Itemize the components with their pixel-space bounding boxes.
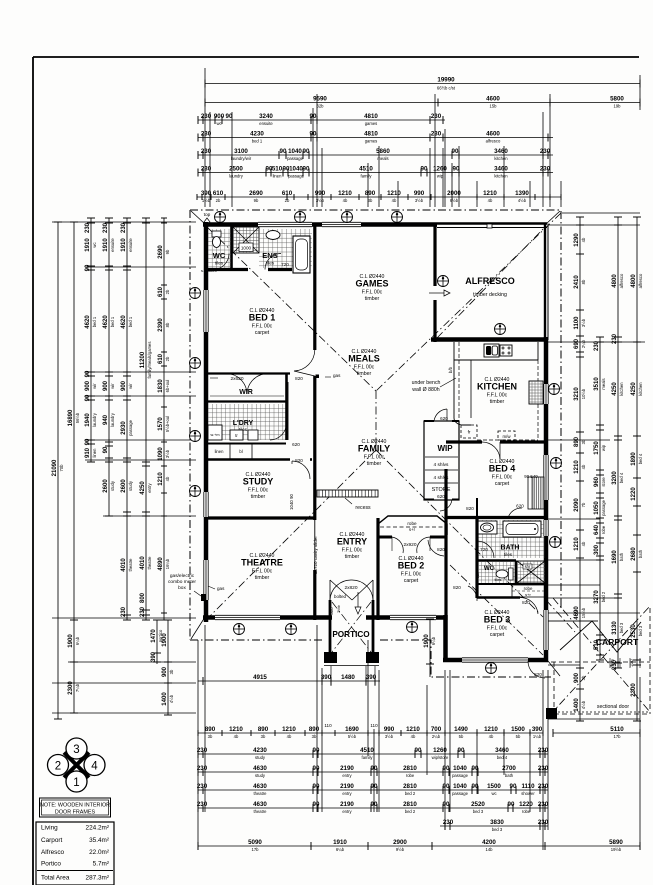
svg-text:910: 910 [85,447,91,458]
svg-text:820: 820 [295,458,303,463]
svg-text:1220: 1220 [631,487,637,501]
svg-text:21090: 21090 [52,459,58,476]
svg-text:90 540: 90 540 [524,474,538,479]
svg-text:510: 510 [272,166,283,173]
svg-text:2x620: 2x620 [230,376,243,382]
svg-text:1210: 1210 [483,190,497,197]
alfresco door arrow [429,292,444,294]
interior wall bed1/games spine x=315 [313,224,316,350]
passage wall next to laundry [287,382,289,440]
svg-text:BATH: BATH [501,545,520,552]
svg-text:kitchen: kitchen [619,382,624,396]
svg-text:NOTE: WOODEN INTERIOR: NOTE: WOODEN INTERIOR [40,803,110,809]
svg-text:4250: 4250 [612,382,618,396]
svg-text:32b: 32b [317,104,325,109]
svg-text:90: 90 [313,747,320,754]
ens shower box [233,227,259,253]
svg-text:WC: WC [484,565,495,572]
svg-text:110: 110 [370,723,378,728]
svg-text:2600: 2600 [121,479,127,493]
svg-text:230: 230 [197,783,208,790]
svg-text:4½b: 4½b [169,694,174,703]
svg-text:robe: robe [524,586,533,591]
svg-text:2190: 2190 [340,765,354,772]
svg-text:4250: 4250 [631,382,637,396]
svg-text:3b: 3b [581,439,586,444]
svg-text:10½b: 10½b [581,388,586,399]
bottom chain bed3 3830 [440,825,548,827]
wall games/alfresco x=435 [433,224,436,286]
svg-text:wc: wc [491,791,496,796]
eave gutter dash-dot outline [190,210,561,677]
svg-text:study: study [128,480,133,491]
svg-text:4630: 4630 [253,801,267,808]
svg-text:4800: 4800 [612,274,618,288]
svg-text:robe: robe [407,521,417,526]
svg-text:1090: 1090 [158,447,164,461]
svg-text:1910: 1910 [333,839,347,846]
kitchen bench top [454,359,538,361]
svg-text:1210: 1210 [406,726,420,733]
svg-text:games: games [365,121,378,126]
svg-text:study: study [255,755,266,760]
dimension chain laundry/passage/meals/kitchen row [198,154,553,156]
svg-text:combo meter: combo meter [168,579,196,585]
right outer wall with windows [544,337,549,384]
svg-text:2: 2 [55,760,61,772]
svg-text:meals: meals [601,378,606,389]
portico columns [324,652,337,663]
svg-text:under bench: under bench [412,380,441,386]
svg-text:9590: 9590 [313,96,327,103]
svg-text:gas: gas [333,373,341,378]
svg-text:90: 90 [371,801,378,808]
svg-text:study: study [255,773,266,778]
svg-text:4b: 4b [488,198,493,203]
svg-text:3b: 3b [581,675,586,680]
svg-text:family: family [362,755,374,760]
svg-text:F.F.L 00c: F.F.L 00c [487,626,508,632]
svg-text:carpet: carpet [495,481,510,487]
svg-text:timber: timber [345,554,360,560]
study door 820 from passage [292,461,310,479]
svg-text:DOOR FRAMES: DOOR FRAMES [55,810,96,816]
wc door arc [213,254,229,270]
dimension chain wc/ensuite/games row [198,119,445,121]
svg-text:study: study [110,480,115,491]
svg-text:110: 110 [324,723,332,728]
svg-text:bed 3: bed 3 [619,622,624,633]
svg-text:17b: 17b [252,847,260,852]
svg-text:1490: 1490 [454,726,468,733]
bed2 top wall [378,536,392,539]
svg-text:ENS: ENS [262,251,277,260]
svg-text:1940: 1940 [85,413,91,427]
svg-text:4b: 4b [165,476,170,481]
svg-text:390: 390 [532,726,543,733]
svg-text:4010: 4010 [140,556,146,570]
svg-text:1¼b: 1¼b [533,734,542,739]
top wall window games [322,221,361,223]
svg-text:5b: 5b [516,734,521,739]
vertical dim 1900 below bed2 [429,619,431,677]
svg-text:wc: wc [216,121,221,126]
svg-text:w.+m: w.+m [211,433,220,437]
svg-text:230: 230 [85,222,91,233]
svg-text:Total Area: Total Area [41,875,70,882]
svg-text:4890: 4890 [158,557,164,571]
svg-text:230: 230 [197,765,208,772]
svg-text:tiles: tiles [504,552,513,557]
svg-text:5800: 5800 [610,96,624,103]
top dimension block extension lines [204,68,206,207]
svg-text:19½b: 19½b [611,847,622,852]
svg-text:90: 90 [226,113,233,120]
svg-text:bed 4: bed 4 [619,472,624,483]
bed4 top wall [446,440,482,443]
svg-text:1110: 1110 [521,783,535,790]
svg-text:bed 1: bed 1 [128,316,133,327]
svg-text:tiles: tiles [215,261,224,266]
svg-text:Portico: Portico [41,861,61,868]
store door arc [440,500,452,512]
passage walls [476,498,478,517]
svg-text:90: 90 [310,113,317,120]
bed3 left wall [443,615,448,662]
svg-text:9b: 9b [165,249,170,254]
dimension chain 4915/390/1480/390 portico row [198,680,380,682]
svg-text:bed 3: bed 3 [473,809,484,814]
svg-text:4620: 4620 [85,315,91,329]
svg-text:1040 90: 1040 90 [289,494,294,510]
svg-text:1500: 1500 [511,726,525,733]
svg-text:6½b: 6½b [450,198,459,203]
svg-text:3200: 3200 [612,471,618,485]
svg-text:1000: 1000 [241,246,252,251]
svg-text:820: 820 [522,600,530,605]
svg-text:timber: timber [251,494,266,500]
svg-text:90: 90 [85,264,91,271]
portico walls [329,600,332,654]
svg-text:1040: 1040 [453,765,467,772]
svg-text:90: 90 [421,166,428,173]
svg-text:1910: 1910 [103,238,109,252]
svg-text:1040: 1040 [288,148,302,155]
svg-text:2b: 2b [216,198,221,203]
svg-text:sectional door: sectional door [597,704,630,710]
svg-text:5090: 5090 [248,839,262,846]
dimension chain bed1/games/alfresco row [198,137,553,139]
svg-text:F.F.L 00c: F.F.L 00c [401,572,422,578]
svg-text:kitchen: kitchen [494,174,508,179]
svg-text:laundry: laundry [92,412,97,427]
ens door arc [265,254,281,270]
svg-text:66½b c/st: 66½b c/st [437,86,456,91]
svg-text:bath: bath [638,549,643,558]
dimension chain 9590/4600/5800 [205,102,640,104]
svg-text:laundry: laundry [229,174,244,179]
svg-text:2930: 2930 [121,421,127,435]
svg-text:5.7m²: 5.7m² [93,861,109,868]
svg-text:L'DRY: L'DRY [233,420,254,427]
svg-text:F.F.L 00c: F.F.L 00c [354,365,375,371]
svg-text:16890: 16890 [68,409,74,426]
svg-text:35.4m²: 35.4m² [89,837,109,844]
svg-text:shr: shr [525,564,531,569]
wip store closet [424,421,459,500]
svg-text:4600: 4600 [486,96,500,103]
svg-text:4200: 4200 [482,839,496,846]
svg-text:390: 390 [151,651,157,662]
svg-text:610: 610 [158,286,164,297]
svg-text:5860: 5860 [376,148,390,155]
svg-text:6¼b: 6¼b [431,636,436,645]
svg-text:4630: 4630 [253,765,267,772]
svg-text:laundry/wir: laundry/wir [231,156,252,161]
svg-text:passage: passage [128,419,133,436]
svg-text:fr: fr [468,430,471,435]
svg-text:287.3m²: 287.3m² [86,875,109,882]
svg-text:5b: 5b [459,734,464,739]
svg-text:5½b: 5½b [348,734,357,739]
compass circle 4 [84,755,105,776]
bath block top wall [446,516,547,519]
svg-text:230: 230 [201,113,212,120]
svg-text:2520: 2520 [471,801,485,808]
svg-text:230: 230 [140,606,146,617]
bed1 door [294,350,315,371]
svg-text:2600: 2600 [103,479,109,493]
svg-text:robe: robe [522,809,531,814]
svg-text:4010: 4010 [121,558,127,572]
svg-text:230: 230 [594,340,600,351]
carport post [546,708,557,719]
cavity slider opening lines [314,520,316,570]
svg-text:610: 610 [282,190,293,197]
svg-text:610: 610 [213,190,224,197]
svg-text:230: 230 [538,801,549,808]
svg-text:90: 90 [443,765,450,772]
wc toilet [212,231,221,237]
svg-text:1910: 1910 [121,238,127,252]
svg-text:700: 700 [431,726,442,733]
svg-text:linen: linen [215,449,225,454]
ens basin [266,231,280,240]
svg-text:900: 900 [214,113,225,120]
svg-text:F.F.L 00c: F.F.L 00c [248,488,269,494]
right chain R3 [617,217,619,668]
svg-text:90: 90 [303,166,310,173]
svg-text:1210: 1210 [574,460,580,474]
svg-text:3½b: 3½b [165,449,170,458]
left wall windows [203,290,205,332]
svg-text:3b: 3b [261,734,266,739]
bath door 720 [477,541,494,558]
svg-text:1290: 1290 [574,233,580,247]
svg-text:90: 90 [280,148,287,155]
svg-text:4510: 4510 [360,747,374,754]
svg-text:THEATRE: THEATRE [241,558,283,568]
bottom chain study/entry/robe/passage/bath [198,771,548,773]
svg-text:1260: 1260 [433,166,447,173]
svg-text:990: 990 [384,726,395,733]
alfresco bottom wall [431,337,547,342]
svg-text:4810: 4810 [364,113,378,120]
svg-text:2x820: 2x820 [344,585,357,591]
svg-text:4b: 4b [343,198,348,203]
svg-text:timber decking: timber decking [473,292,507,298]
svg-text:820: 820 [453,585,461,590]
right chain R4 [636,217,638,721]
svg-text:1480: 1480 [341,674,355,681]
svg-text:2690: 2690 [158,245,164,259]
svg-text:bed 4: bed 4 [638,453,643,464]
left chain L3 ensuite/bed1/passage/study/theatre [126,218,128,620]
svg-text:15b: 15b [490,104,498,109]
dimension chain 16890/1900/2300 [73,222,75,713]
svg-text:90: 90 [443,783,450,790]
svg-text:1390: 1390 [515,190,529,197]
svg-text:7¼b: 7¼b [75,683,80,692]
svg-text:90: 90 [472,783,479,790]
svg-text:8b: 8b [165,322,170,327]
svg-text:620: 620 [440,416,448,421]
svg-text:820: 820 [466,506,474,511]
svg-text:19b: 19b [614,104,622,109]
svg-text:1570: 1570 [158,417,164,431]
svg-text:3460: 3460 [494,148,508,155]
left fine chain [163,218,165,620]
svg-text:wir: wir [92,383,97,389]
svg-text:230: 230 [201,131,212,138]
svg-text:1900: 1900 [162,633,168,647]
kitchen oven tower [529,381,543,404]
svg-text:230: 230 [201,166,212,173]
svg-text:230: 230 [538,765,549,772]
alfresco top edge [437,222,547,224]
svg-text:bath: bath [505,773,514,778]
ens tiles hatch [208,229,231,268]
svg-text:family: family [361,174,373,179]
svg-text:900: 900 [85,380,91,391]
family recess shelf [317,490,378,497]
svg-text:recess: recess [355,505,371,511]
svg-text:3b: 3b [368,198,373,203]
svg-text:2b: 2b [285,198,290,203]
svg-text:11200: 11200 [140,351,146,368]
svg-text:bath: bath [619,552,624,561]
svg-text:900: 900 [574,672,580,683]
svg-text:90: 90 [443,801,450,808]
svg-text:2810: 2810 [403,783,417,790]
svg-text:1400: 1400 [574,698,580,712]
top wall window ens [258,221,312,223]
svg-text:4½b: 4½b [518,198,527,203]
svg-text:alfresco: alfresco [638,273,643,288]
svg-text:90: 90 [510,783,517,790]
svg-text:3510: 3510 [594,377,600,391]
wc2 [477,559,516,561]
svg-text:90: 90 [452,148,459,155]
compass circle 1 [66,771,87,792]
svg-text:890: 890 [574,436,580,447]
games wall vent [487,224,492,228]
right dimension block extension lines [562,212,640,214]
svg-text:games: games [365,139,378,144]
svg-text:kitchen: kitchen [638,382,643,396]
svg-text:230: 230 [443,819,454,826]
note box [40,798,111,817]
svg-text:wip/store: wip/store [432,755,449,760]
study/theatre divider [208,516,314,519]
svg-text:F.F.L 00c: F.F.L 00c [492,475,513,481]
svg-text:16¼b: 16¼b [165,558,170,569]
svg-text:230: 230 [197,747,208,754]
svg-text:wip: wip [601,444,606,451]
svg-text:4230: 4230 [250,131,264,138]
bottom fine chain row [198,732,543,734]
svg-text:2000: 2000 [447,190,461,197]
svg-text:4600: 4600 [486,131,500,138]
svg-text:bed 4: bed 4 [497,755,508,760]
svg-text:8b: 8b [581,279,586,284]
left chain L2 ensuite/bed1/wir/laundry/study [108,218,110,516]
svg-text:WIP: WIP [437,444,453,453]
svg-text:bl: bl [239,449,242,454]
svg-text:2¼b: 2¼b [432,734,441,739]
svg-text:2190: 2190 [340,783,354,790]
bottom chain theatre/entry/bed2/bed3/robe [198,807,548,809]
svg-text:2190: 2190 [340,801,354,808]
svg-text:820: 820 [437,547,445,552]
svg-text:box: box [178,585,186,591]
left dimension block extension lines [52,221,196,223]
compass circle 3 [66,738,87,759]
svg-text:STORE: STORE [432,487,451,493]
svg-text:STUDY: STUDY [243,477,274,487]
svg-text:bed 2: bed 2 [601,591,606,602]
svg-text:230: 230 [540,166,551,173]
svg-text:1900: 1900 [68,634,74,648]
svg-text:passage: passage [452,773,469,778]
svg-text:90: 90 [313,801,320,808]
svg-text:ensuite: ensuite [128,238,133,252]
svg-text:620: 620 [292,442,300,447]
svg-text:90: 90 [85,438,91,445]
svg-text:90: 90 [303,148,310,155]
svg-text:4690: 4690 [574,606,580,620]
svg-text:timber: timber [367,461,382,467]
svg-text:90: 90 [310,131,317,138]
svg-text:4½b: 4½b [581,700,586,709]
svg-text:carpet: carpet [490,632,505,638]
svg-text:3130: 3130 [612,621,618,635]
svg-text:meals: meals [377,156,388,161]
bottom wall theatre-entry-bed2 with windows [203,615,215,620]
dimension chain 19990 overall width [205,83,640,85]
svg-text:F.F.L 00c: F.F.L 00c [252,324,273,330]
bed4 door [482,442,500,459]
svg-text:1470: 1470 [151,629,157,643]
svg-text:CARPORT: CARPORT [596,637,639,647]
svg-text:linen: linen [92,448,97,458]
svg-text:2680: 2680 [631,547,637,561]
svg-text:90: 90 [85,394,91,401]
svg-text:3240: 3240 [259,113,273,120]
svg-text:entry: entry [342,809,352,814]
entry arrow [357,592,359,607]
svg-text:2700: 2700 [502,765,516,772]
